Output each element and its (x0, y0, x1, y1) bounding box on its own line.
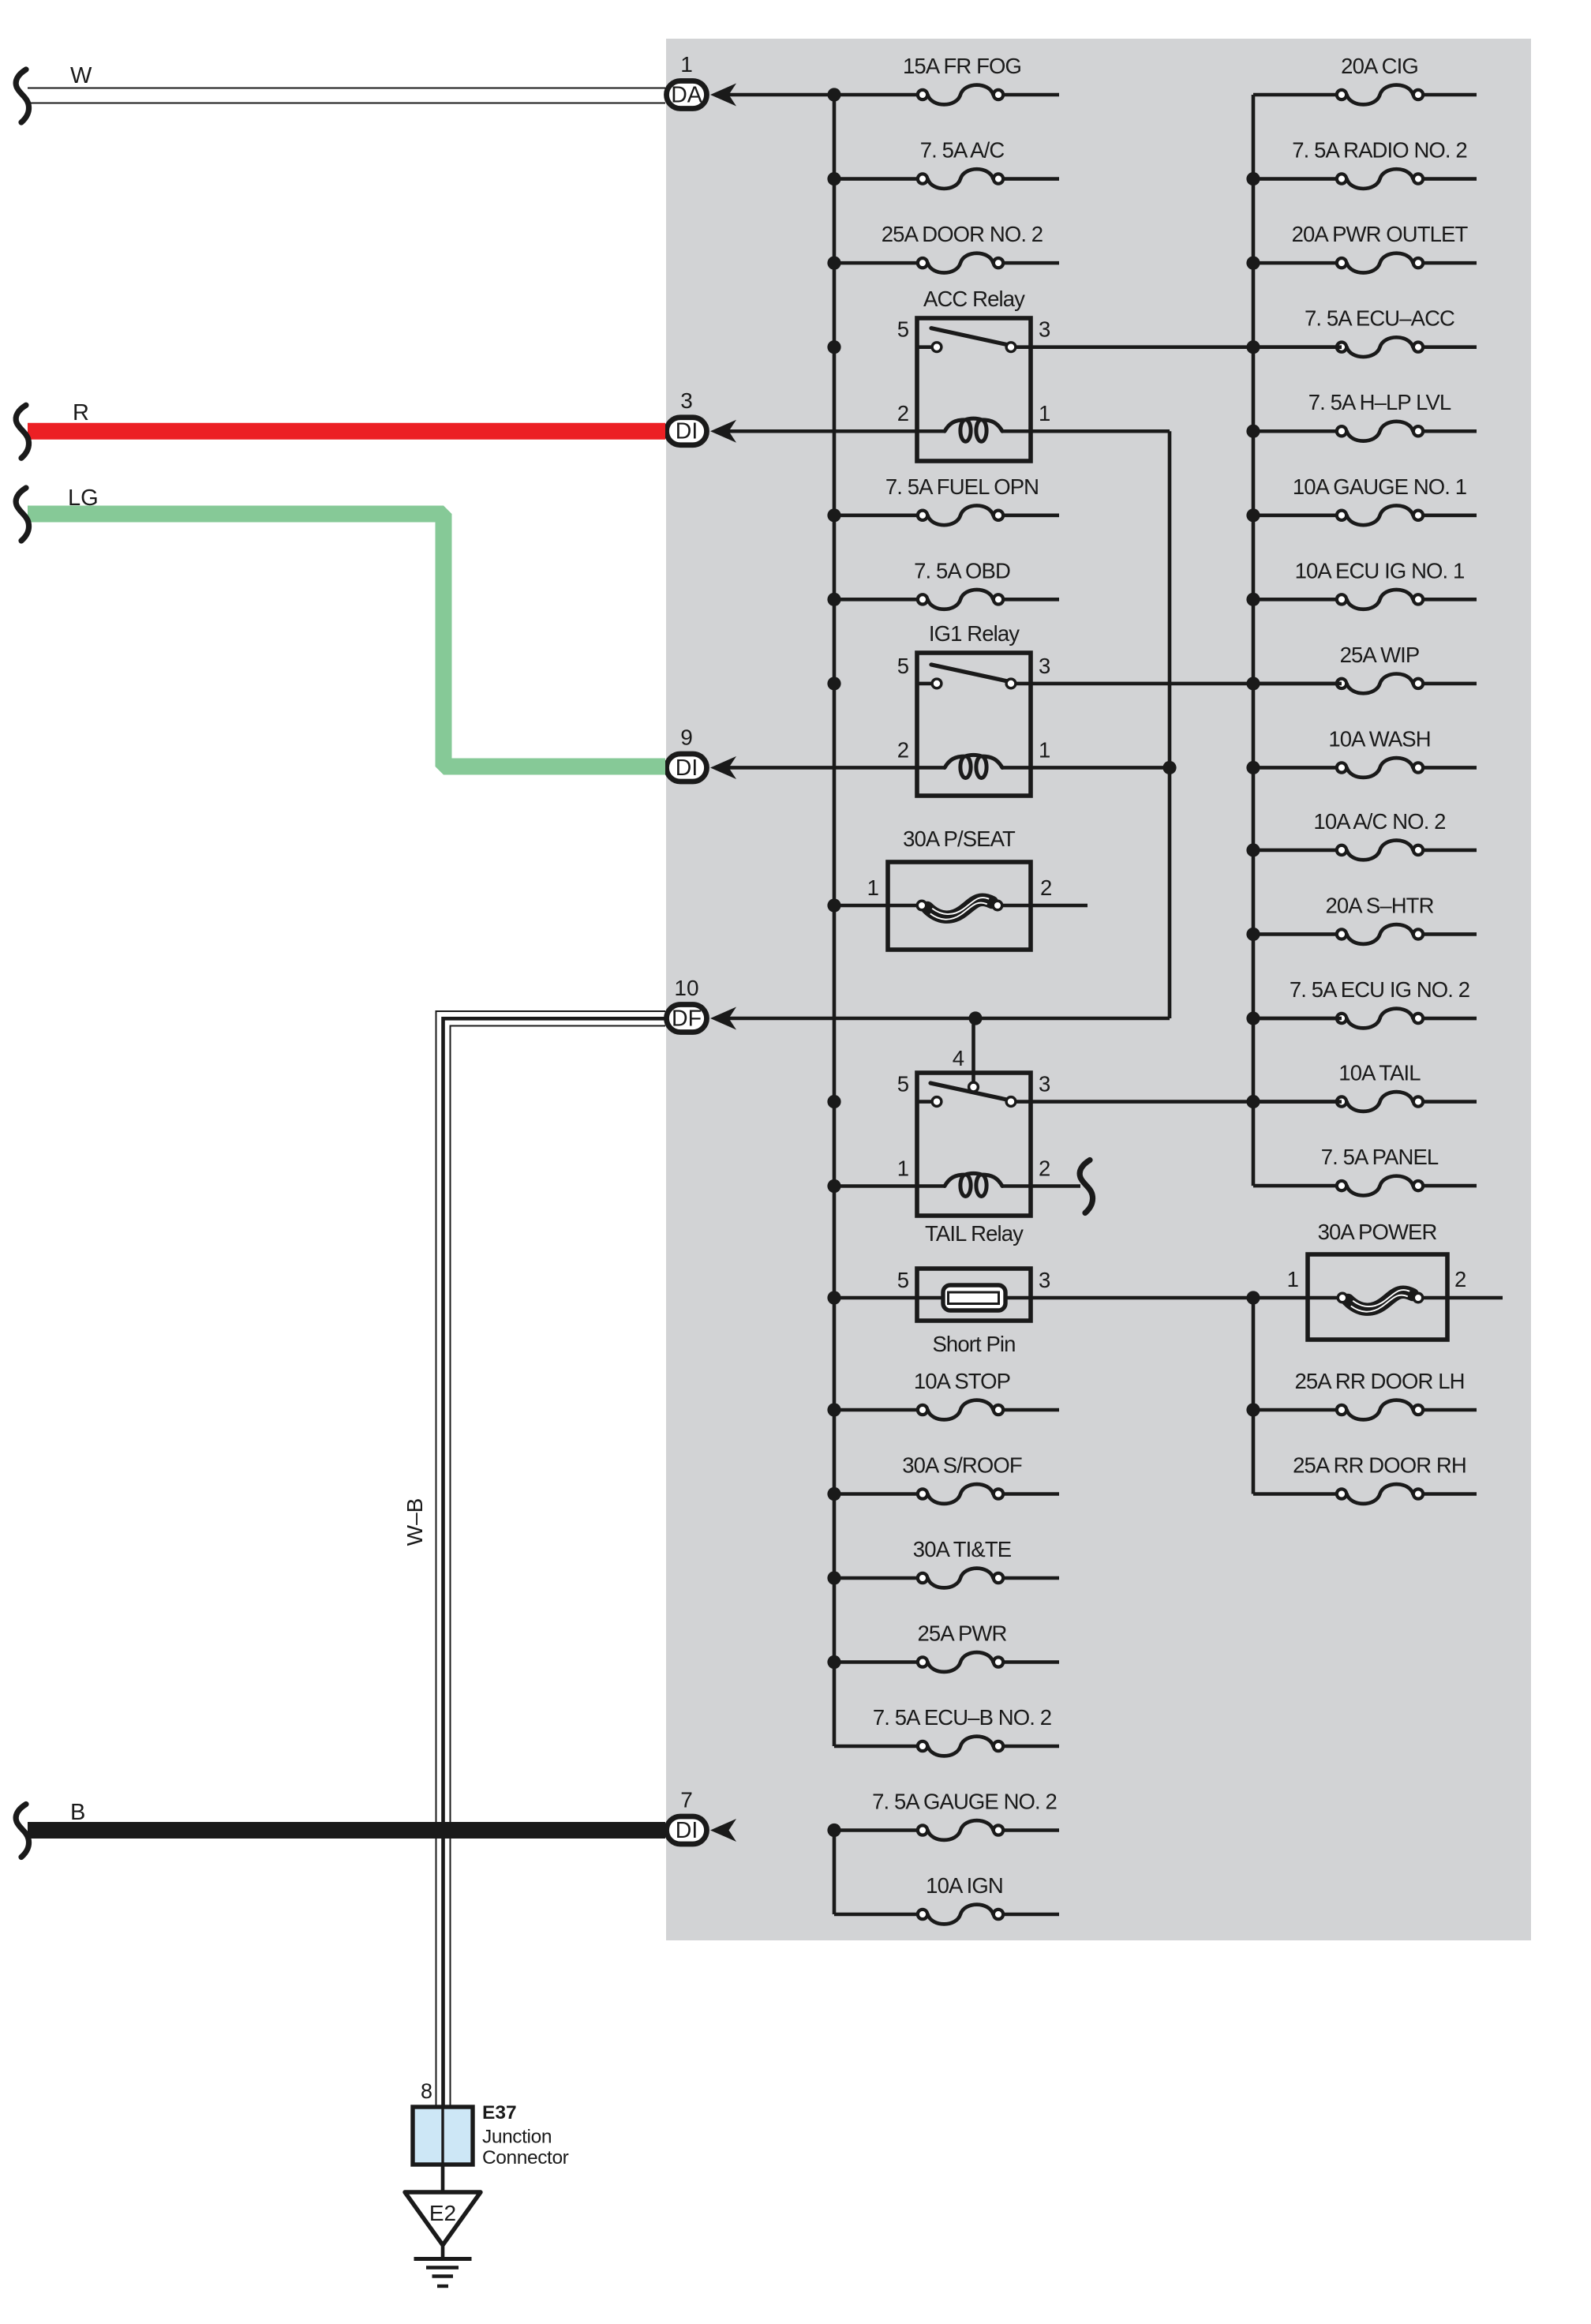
svg-text:1: 1 (1039, 401, 1050, 425)
svg-text:30A POWER: 30A POWER (1318, 1220, 1437, 1244)
svg-text:E2: E2 (429, 2201, 456, 2225)
svg-text:7. 5A ECU–B NO. 2: 7. 5A ECU–B NO. 2 (873, 1705, 1051, 1730)
svg-text:TAIL Relay: TAIL Relay (925, 1221, 1024, 1246)
svg-text:2: 2 (1454, 1267, 1466, 1291)
svg-text:Connector: Connector (482, 2147, 569, 2168)
svg-text:DI: DI (676, 755, 698, 781)
svg-text:DI: DI (676, 1818, 698, 1843)
svg-text:1: 1 (1287, 1267, 1298, 1291)
svg-text:7. 5A A/C: 7. 5A A/C (920, 138, 1005, 163)
svg-text:E37: E37 (482, 2102, 517, 2123)
svg-text:25A PWR: 25A PWR (918, 1621, 1007, 1646)
svg-text:LG: LG (68, 485, 99, 511)
svg-text:20A S–HTR: 20A S–HTR (1325, 893, 1433, 917)
svg-text:W–B: W–B (402, 1498, 427, 1546)
svg-text:10: 10 (674, 976, 698, 1000)
svg-text:1: 1 (897, 1156, 909, 1181)
svg-text:2: 2 (897, 737, 909, 762)
svg-text:7. 5A H–LP LVL: 7. 5A H–LP LVL (1308, 390, 1451, 414)
svg-text:20A PWR OUTLET: 20A PWR OUTLET (1292, 222, 1469, 246)
svg-text:30A TI&TE: 30A TI&TE (913, 1537, 1012, 1561)
svg-text:Short Pin: Short Pin (932, 1332, 1015, 1356)
svg-text:7. 5A GAUGE NO. 2: 7. 5A GAUGE NO. 2 (872, 1790, 1057, 1814)
svg-text:2: 2 (1040, 875, 1052, 900)
svg-text:15A FR FOG: 15A FR FOG (903, 54, 1021, 78)
svg-text:8: 8 (421, 2079, 432, 2103)
svg-text:30A P/SEAT: 30A P/SEAT (903, 827, 1016, 851)
svg-text:R: R (73, 400, 89, 425)
svg-text:20A CIG: 20A CIG (1341, 54, 1418, 78)
svg-text:7. 5A ECU–ACC: 7. 5A ECU–ACC (1305, 306, 1454, 331)
svg-text:ACC Relay: ACC Relay (923, 287, 1025, 311)
svg-text:DA: DA (671, 83, 702, 108)
svg-text:3: 3 (1039, 654, 1050, 678)
svg-text:10A TAIL: 10A TAIL (1338, 1061, 1421, 1085)
svg-text:DI: DI (676, 419, 698, 444)
svg-text:10A IGN: 10A IGN (926, 1873, 1003, 1898)
svg-text:7. 5A RADIO NO. 2: 7. 5A RADIO NO. 2 (1292, 138, 1467, 163)
svg-text:7: 7 (680, 1788, 693, 1812)
svg-text:25A DOOR NO. 2: 25A DOOR NO. 2 (882, 222, 1043, 246)
svg-text:3: 3 (1039, 317, 1050, 342)
svg-text:5: 5 (897, 1072, 909, 1096)
svg-text:7. 5A FUEL OPN: 7. 5A FUEL OPN (885, 474, 1039, 499)
svg-text:DF: DF (672, 1006, 702, 1032)
svg-text:9: 9 (680, 725, 693, 749)
svg-text:10A ECU IG NO. 1: 10A ECU IG NO. 1 (1295, 558, 1465, 583)
svg-text:7. 5A OBD: 7. 5A OBD (914, 558, 1010, 583)
svg-text:5: 5 (897, 1268, 909, 1292)
svg-text:1: 1 (680, 52, 693, 77)
svg-text:1: 1 (1039, 737, 1050, 762)
svg-text:30A S/ROOF: 30A S/ROOF (902, 1453, 1022, 1478)
svg-text:3: 3 (1039, 1268, 1050, 1292)
svg-text:W: W (70, 63, 92, 88)
svg-text:Junction: Junction (482, 2127, 552, 2148)
svg-text:4: 4 (953, 1046, 964, 1070)
svg-text:2: 2 (1039, 1156, 1050, 1181)
svg-text:10A GAUGE NO. 1: 10A GAUGE NO. 1 (1293, 474, 1466, 499)
svg-text:3: 3 (680, 388, 693, 413)
svg-text:25A WIP: 25A WIP (1340, 643, 1420, 667)
svg-text:10A A/C NO. 2: 10A A/C NO. 2 (1313, 809, 1445, 834)
svg-text:2: 2 (897, 401, 909, 425)
svg-text:10A STOP: 10A STOP (914, 1369, 1010, 1393)
svg-text:7. 5A ECU IG NO. 2: 7. 5A ECU IG NO. 2 (1290, 977, 1469, 1002)
svg-text:5: 5 (897, 654, 909, 678)
svg-text:3: 3 (1039, 1072, 1050, 1096)
svg-text:25A RR DOOR RH: 25A RR DOOR RH (1293, 1453, 1466, 1478)
svg-text:1: 1 (867, 875, 878, 900)
svg-text:7. 5A PANEL: 7. 5A PANEL (1321, 1145, 1439, 1169)
svg-text:IG1 Relay: IG1 Relay (929, 621, 1020, 646)
svg-text:25A RR DOOR LH: 25A RR DOOR LH (1294, 1369, 1464, 1393)
svg-text:B: B (70, 1800, 85, 1825)
svg-text:10A WASH: 10A WASH (1328, 726, 1430, 751)
svg-text:5: 5 (897, 317, 909, 342)
